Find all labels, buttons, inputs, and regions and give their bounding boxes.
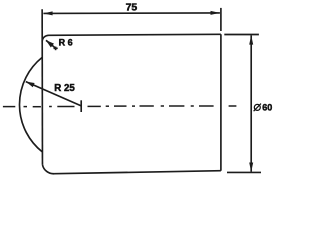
svg-text:R 25: R 25	[54, 83, 75, 94]
arrowhead R25	[26, 82, 35, 88]
centerline (axis) dash-dot	[3, 105, 237, 108]
dimension line diameter 60	[250, 35, 252, 171]
leader line R6	[46, 40, 56, 48]
right edge of part	[220, 34, 222, 170]
extension line right for 75	[220, 8, 222, 31]
center tick R25	[80, 100, 82, 112]
arrowhead 75 left	[43, 11, 52, 15]
arrowhead diameter 60 up	[249, 35, 253, 44]
fillet bottom-left corner	[42, 165, 54, 174]
svg-text:60: 60	[262, 103, 272, 113]
center mark cross R6	[54, 47, 58, 49]
arrowhead R6	[46, 40, 54, 47]
arrowhead 75 right	[211, 11, 220, 15]
arrowhead diameter 60 down	[249, 163, 253, 172]
top edge of part	[49, 34, 221, 35]
extension line top for diameter 60	[224, 34, 259, 36]
bottom edge of part	[55, 171, 221, 174]
svg-text:R 6: R 6	[59, 37, 73, 47]
dimension line 75	[43, 12, 220, 15]
spherical end arc R25	[19, 58, 42, 153]
extension line bottom for diameter 60	[227, 171, 261, 173]
left edge line / extension line for 75	[41, 9, 43, 164]
diameter symbol	[254, 104, 261, 112]
fillet R6 top-left corner	[42, 35, 49, 41]
svg-text:75: 75	[126, 1, 138, 13]
leader line R25	[26, 82, 81, 106]
